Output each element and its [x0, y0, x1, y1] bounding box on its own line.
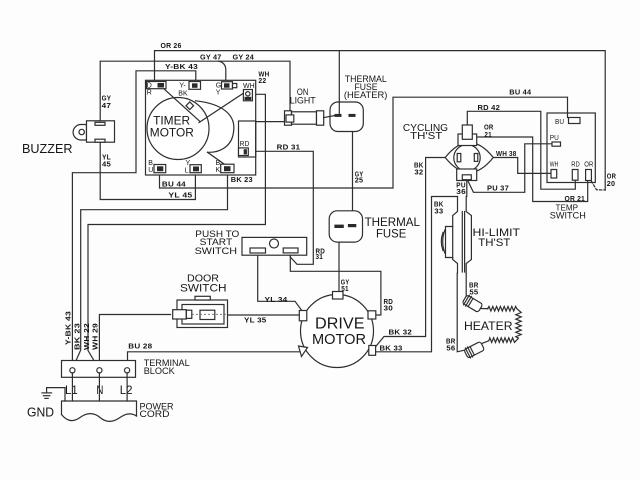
svg-text:BU 44: BU 44	[509, 90, 531, 97]
heater terminal BR 56	[446, 339, 485, 359]
temp switch terminal OR	[584, 161, 593, 180]
svg-text:RD 42: RD 42	[478, 105, 501, 112]
power cord	[62, 401, 174, 421]
svg-text:BK 32: BK 32	[389, 329, 413, 336]
timer terminal RD (sub-box)	[239, 121, 256, 157]
svg-text:22: 22	[258, 78, 266, 85]
svg-text:B: B	[216, 160, 221, 167]
wire RD 31 (timer RD to push-to-start switch)	[248, 144, 325, 264]
svg-text:HEATER: HEATER	[464, 319, 513, 333]
svg-text:20: 20	[607, 181, 615, 188]
svg-text:WH 38: WH 38	[496, 151, 517, 158]
svg-text:RD: RD	[240, 141, 250, 148]
svg-text:BK: BK	[178, 90, 188, 97]
terminal block	[62, 358, 190, 377]
svg-text:OR: OR	[607, 174, 616, 181]
temp switch terminal PU	[550, 135, 561, 146]
svg-text:BK: BK	[434, 202, 444, 209]
svg-text:LIGHT: LIGHT	[290, 96, 316, 106]
svg-text:GY: GY	[102, 96, 112, 103]
svg-text:MOTOR: MOTOR	[150, 126, 194, 140]
wire PU 36 (cycling thermostat to hi-limit)	[456, 181, 467, 197]
svg-text:BR: BR	[469, 282, 479, 289]
wire Y-BK 43 (timer to terminal block L1)	[72, 64, 198, 367]
timer terminal YL	[185, 160, 202, 174]
wire RD 42 (cycling thermostat to temp switch RD)	[467, 105, 575, 189]
heater terminal BR 55	[462, 282, 488, 313]
svg-text:TH'ST: TH'ST	[410, 131, 442, 142]
svg-text:OR: OR	[584, 161, 593, 168]
svg-text:DRIVE: DRIVE	[315, 315, 365, 332]
wire WH 22 (timer WH to on-light and terminal block N)	[88, 71, 285, 366]
door switch	[173, 273, 228, 328]
svg-text:BK: BK	[414, 162, 424, 169]
drive motor terminal lower-right (BK 32/33)	[369, 346, 376, 356]
timer terminal WH 22	[243, 83, 255, 101]
wire BK 32 (drive motor to cycling thermostat)	[375, 158, 446, 349]
wire GY 47 / GY 24 (buzzer to timer G-Y to on-light)	[100, 54, 290, 122]
hi-limit thermostat	[441, 197, 520, 352]
thermal fuse (second)	[329, 211, 420, 242]
svg-text:OR 21: OR 21	[565, 196, 586, 203]
svg-text:BLOCK: BLOCK	[144, 366, 176, 377]
wire GY 51 (thermal fuse to drive motor top)	[339, 229, 349, 293]
svg-text:B: B	[148, 160, 153, 167]
svg-text:FUSE: FUSE	[376, 227, 406, 241]
buzzer	[22, 121, 115, 156]
svg-text:GY 24: GY 24	[233, 54, 255, 61]
svg-text:OR: OR	[484, 125, 494, 132]
drive motor	[301, 295, 374, 368]
svg-text:BU: BU	[555, 119, 564, 126]
svg-text:(HEATER): (HEATER)	[344, 90, 388, 100]
svg-text:SWITCH: SWITCH	[550, 211, 586, 221]
svg-text:GND: GND	[27, 404, 54, 419]
svg-text:MOTOR: MOTOR	[312, 331, 366, 348]
svg-text:Y: Y	[186, 160, 191, 167]
svg-text:OR 26: OR 26	[161, 43, 182, 50]
svg-text:56: 56	[446, 346, 455, 353]
cycling thermostat	[403, 123, 493, 181]
svg-text:21: 21	[484, 132, 492, 139]
temp switch terminal WH	[550, 161, 559, 178]
timer motor box	[146, 80, 256, 175]
drive motor terminal upper-right (RD 30)	[368, 311, 376, 319]
svg-text:BK 33: BK 33	[380, 345, 403, 352]
svg-text:YL 45: YL 45	[168, 193, 192, 200]
svg-text:GY 47: GY 47	[200, 54, 222, 61]
wire PU 37 (cycling thermostat to temp switch PU)	[468, 144, 552, 193]
svg-text:45: 45	[102, 161, 111, 168]
wire N to power cord	[98, 373, 100, 401]
svg-text:25: 25	[355, 178, 364, 185]
svg-text:BR: BR	[446, 339, 456, 346]
svg-text:K: K	[216, 167, 221, 174]
svg-text:R: R	[147, 89, 152, 96]
wire YL 34 (push-to-start to drive motor)	[258, 253, 302, 311]
svg-text:YL: YL	[102, 154, 111, 161]
heater element coil	[464, 306, 521, 343]
svg-text:TH'ST: TH'ST	[478, 237, 510, 249]
svg-text:CORD: CORD	[140, 409, 170, 420]
svg-text:BU 28: BU 28	[128, 344, 152, 351]
thermal fuse (heater)	[324, 51, 388, 132]
wire RD 30 (push-to-start to drive motor)	[290, 253, 393, 315]
svg-text:WH 29: WH 29	[93, 323, 100, 350]
svg-text:YL 35: YL 35	[244, 317, 267, 324]
temp switch box	[547, 113, 595, 221]
drive motor terminal upper-left (YL 34/35)	[299, 311, 307, 321]
wire BK 23 (timer BK to terminal block L1)	[73, 173, 253, 367]
svg-text:47: 47	[102, 103, 112, 110]
svg-text:BK 23: BK 23	[231, 177, 253, 184]
svg-text:L2: L2	[120, 383, 133, 397]
svg-text:BK 23: BK 23	[75, 323, 82, 350]
wire GY 25 (thermal fuse heater to thermal fuse)	[353, 117, 364, 224]
wire L1 to power cord	[71, 373, 73, 401]
svg-text:Y: Y	[216, 89, 221, 96]
svg-text:SWITCH: SWITCH	[195, 246, 238, 257]
ground symbol GND	[27, 388, 65, 420]
wire L2 to power cord	[126, 373, 128, 401]
svg-text:WH: WH	[243, 83, 255, 90]
svg-text:33: 33	[434, 209, 443, 216]
push to start switch	[195, 229, 307, 257]
svg-text:RD: RD	[571, 161, 580, 168]
temp switch terminal RD	[571, 161, 580, 180]
wire YL 45 (buzzer to timer YL)	[100, 142, 195, 199]
svg-text:WH: WH	[550, 161, 559, 168]
svg-text:L1: L1	[65, 383, 78, 397]
timer terminal Y-BK	[178, 82, 200, 98]
rotated wire labels at terminal block	[66, 311, 100, 350]
svg-text:Y-: Y-	[179, 83, 186, 90]
svg-text:PU 37: PU 37	[487, 185, 509, 192]
svg-text:55: 55	[469, 289, 478, 296]
wire WH 38 (cycling thermostat to temp switch WH)	[493, 151, 551, 173]
timer terminal D-R (pin DR)	[147, 82, 167, 97]
svg-text:Y-BK 43: Y-BK 43	[165, 64, 198, 71]
wire BU 28 (terminal block L2 to drive motor)	[128, 344, 300, 367]
svg-text:30: 30	[384, 305, 394, 312]
wire WH 29 (door switch to terminal block N)	[99, 315, 170, 368]
wire OR 20 (temp switch OR to OR26 bus, dashed)	[591, 174, 616, 191]
timer terminal BU	[148, 160, 165, 174]
svg-text:L: L	[185, 167, 189, 174]
svg-text:PU: PU	[550, 135, 559, 142]
svg-text:RD 31: RD 31	[277, 144, 301, 151]
wire BU 44 (timer BU to temp switch BU)	[160, 90, 568, 189]
wire OR 21 (cycling thermostat to temp switch OR)	[477, 125, 588, 204]
wire OR 26 top bus	[155, 43, 606, 190]
drive motor terminal lower-left (BU 28)	[299, 346, 308, 357]
svg-text:U: U	[148, 167, 153, 174]
svg-text:Y-BK 43: Y-BK 43	[66, 311, 73, 345]
svg-text:YL 34: YL 34	[265, 297, 288, 304]
drive motor terminal top (GY 51)	[333, 292, 344, 300]
svg-text:BU 44: BU 44	[162, 182, 186, 189]
on light (indicator lamp)	[285, 87, 324, 125]
svg-text:BUZZER: BUZZER	[22, 141, 73, 156]
timer terminal BK	[216, 160, 235, 174]
svg-text:36: 36	[456, 189, 466, 196]
timer terminal G-Y	[216, 82, 237, 97]
wire YL 35 (door switch to drive motor)	[228, 315, 300, 324]
svg-text:WH 22: WH 22	[84, 323, 91, 350]
svg-text:SWITCH: SWITCH	[180, 283, 227, 295]
svg-text:31: 31	[316, 254, 324, 261]
wire BK 33 (drive motor to hi-limit thermostat)	[376, 197, 458, 353]
temp switch terminal BU	[555, 118, 580, 126]
svg-text:32: 32	[414, 170, 423, 177]
